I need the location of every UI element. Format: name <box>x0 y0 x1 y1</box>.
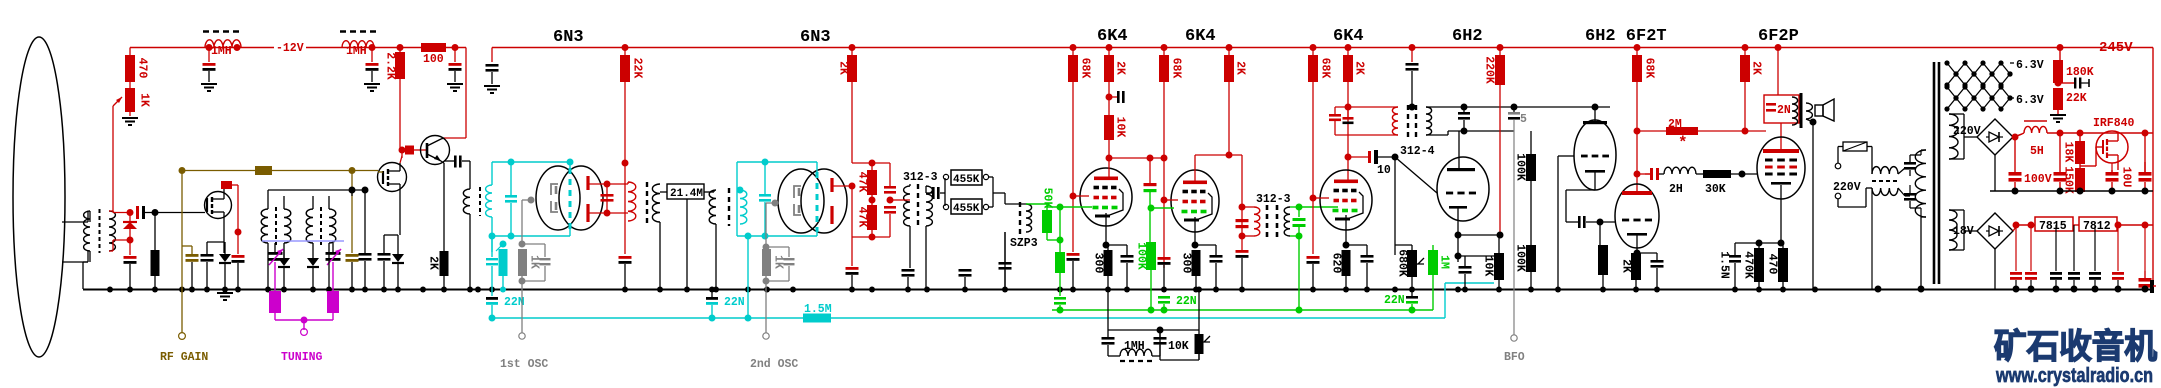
svg-text:2H: 2H <box>1669 183 1683 196</box>
transformer 312-3B core <box>1266 205 1269 239</box>
node rail 68K-2 <box>1161 44 1168 51</box>
tube V1 6N3 envelope <box>536 166 580 230</box>
wire screen V3 <box>1070 193 1077 200</box>
resistor grid leak 6F2T <box>1599 222 1601 245</box>
capacitor cyan small <box>491 236 493 257</box>
svg-text:18K: 18K <box>2062 142 2075 163</box>
capacitor B+ entry <box>491 48 493 63</box>
resistor cyan grid leak <box>500 241 507 248</box>
svg-text:矿石收音机: 矿石收音机 <box>1994 328 2157 366</box>
resistor 300 first <box>1104 250 1113 276</box>
resistor 68K first <box>1072 48 1074 56</box>
wire speaker return <box>1810 119 1817 126</box>
winding 18V <box>1949 210 1957 250</box>
capacitor filter 3 <box>454 48 456 63</box>
wire cathode to 2nd OSC <box>765 276 767 333</box>
transformer 312-4 secondary <box>1426 107 1432 135</box>
wire plate V8 to 2H <box>1634 171 1641 178</box>
diode osc <box>392 254 404 262</box>
capacitor 100V second <box>2059 133 2061 172</box>
svg-text:6K4: 6K4 <box>1333 27 1364 46</box>
svg-text:2K: 2K <box>1353 61 1366 75</box>
svg-text:6N3: 6N3 <box>553 28 584 47</box>
wire -12V rail <box>130 47 466 49</box>
svg-text:5: 5 <box>1520 113 1527 126</box>
capacitor coupling 2H red <box>1650 168 1653 180</box>
wire AGC cyan bus <box>492 317 803 319</box>
transformer 312-3 secondary <box>926 186 932 226</box>
capacitor 22N second <box>706 297 718 300</box>
svg-text:10K: 10K <box>1482 256 1495 277</box>
rectifier bridge 1 <box>1977 119 2013 155</box>
svg-text:2nd OSC: 2nd OSC <box>750 358 798 371</box>
resistor base red box <box>405 146 414 155</box>
transformer output secondary <box>1806 103 1812 119</box>
resistor 30K <box>1696 173 1703 175</box>
svg-text:68K: 68K <box>1170 58 1183 79</box>
wire cathode V8 <box>1636 235 1638 253</box>
node screen filter <box>1106 94 1113 101</box>
transformer SZP3 <box>1004 193 1006 204</box>
svg-text:22K: 22K <box>631 58 644 79</box>
resistor 47K lower <box>869 197 876 204</box>
wire source <box>223 218 225 253</box>
wire plate V3 <box>1108 158 1110 178</box>
tube V9 6F2P pentode <box>1757 137 1805 199</box>
wire B+ rail right drop <box>2152 48 2154 290</box>
tube V1 right plate red <box>586 176 589 190</box>
svg-text:2K: 2K <box>1620 259 1633 273</box>
capacitor 68K bypass 1 <box>1067 253 1080 256</box>
transformer 312-4 core <box>1407 105 1409 137</box>
wire cathode V5 <box>1345 215 1347 245</box>
wire plug ground <box>1844 198 1846 289</box>
capacitor screen <box>1109 96 1117 98</box>
resistor 300 second <box>1192 250 1201 276</box>
capacitor szp3 gnd <box>999 262 1012 265</box>
svg-text:300: 300 <box>1092 253 1105 274</box>
resistor 100K lower <box>1526 245 1536 272</box>
wire reg out <box>2117 224 2153 226</box>
svg-text:455K: 455K <box>953 203 980 215</box>
node choke out <box>2057 130 2064 137</box>
winding 220V <box>1949 114 1958 159</box>
svg-text:312-3: 312-3 <box>903 171 938 184</box>
wire tank right <box>889 163 891 186</box>
svg-text:22N: 22N <box>1384 294 1405 307</box>
node rail 2K-5 <box>1742 44 1749 51</box>
wire 15V rail <box>2016 224 2035 226</box>
svg-text:1K: 1K <box>772 255 785 269</box>
node coupling 10 <box>1345 154 1352 161</box>
tube V6 6H2 triode A <box>1437 157 1489 221</box>
wire ground bus <box>83 289 2152 291</box>
wire bridge1 bottom <box>1994 155 1996 191</box>
tube V4 6K4 <box>1171 170 1219 232</box>
resistor 100K green <box>1146 242 1156 270</box>
resistor 10K 6H2 <box>1494 253 1504 280</box>
wire IRF source <box>2117 163 2119 170</box>
capacitor 1.5N <box>1734 243 1736 255</box>
capacitor coupling 6F2T <box>1578 216 1581 228</box>
svg-text:100K: 100K <box>1514 153 1527 181</box>
wire coil grounds <box>267 243 269 289</box>
ground symbol 22K <box>2050 114 2066 116</box>
svg-text:30K: 30K <box>1705 183 1726 196</box>
wire osc gate drop <box>351 171 353 254</box>
transistor Q1 MOSFET <box>205 192 232 219</box>
svg-text:68K: 68K <box>1079 58 1092 79</box>
transformer osc1 secondary <box>486 185 492 217</box>
wire tank feed <box>1777 48 1779 96</box>
capacitor psu b <box>1904 193 1916 196</box>
speaker <box>1815 105 1823 116</box>
tube V1 left plate bracket <box>551 184 558 195</box>
svg-text:6H2 6F2T: 6H2 6F2T <box>1585 27 1667 46</box>
svg-text:312-4: 312-4 <box>1400 145 1435 158</box>
capacitor 22N first <box>486 297 498 300</box>
capacitor variable C-tune1 <box>274 243 276 252</box>
svg-text:10U: 10U <box>2120 167 2133 188</box>
cyan grid box V2 <box>737 161 817 163</box>
capacitor 10 <box>1348 156 1368 158</box>
resistor grid leak <box>154 213 156 251</box>
capacitor green szp <box>1296 204 1303 211</box>
resistor drain red box <box>221 181 232 189</box>
tank 2N box <box>1764 95 1799 123</box>
svg-text:7815: 7815 <box>2039 220 2067 233</box>
wire between regs <box>2073 224 2079 226</box>
wire gray cathode V2 <box>772 200 779 207</box>
svg-text:6H2: 6H2 <box>1452 27 1483 46</box>
svg-text:100: 100 <box>423 53 444 66</box>
terminal TUNING <box>301 329 308 336</box>
svg-text:2K: 2K <box>1234 61 1247 75</box>
capacitor 100V first <box>2014 137 2016 172</box>
svg-text:2K: 2K <box>427 256 440 270</box>
svg-text:470: 470 <box>1766 254 1779 275</box>
resistor 2.2K <box>399 48 401 53</box>
capacitor source bypass <box>201 254 214 257</box>
tube V7 6H2 triode B <box>1574 120 1616 190</box>
svg-text:2N: 2N <box>1777 104 1791 117</box>
filter 21.4M box <box>667 184 704 199</box>
svg-text:10: 10 <box>1377 164 1391 177</box>
wire emitter <box>441 161 444 163</box>
wire grid V7 <box>1558 155 1574 157</box>
node rail 220K <box>1497 44 1504 51</box>
tank coil <box>1792 97 1798 125</box>
node 2K rail tap <box>849 44 856 51</box>
svg-text:6.3V: 6.3V <box>2016 94 2044 107</box>
tuning gang section 2 <box>327 291 339 313</box>
svg-text:1.5M: 1.5M <box>804 303 832 316</box>
capacitor interstage A <box>1458 112 1470 115</box>
wire collector feed <box>465 48 467 139</box>
resistor 1K gray <box>518 249 527 276</box>
node rail 2K-2 <box>1226 44 1233 51</box>
svg-text:1K: 1K <box>138 93 151 107</box>
junction dots on ground bus <box>107 287 113 293</box>
capacitor tank upper <box>884 186 896 189</box>
wire grid V5 green feed <box>1299 206 1338 208</box>
svg-text:10K: 10K <box>1114 117 1127 138</box>
diode D1 <box>123 222 137 229</box>
tube V2 left plate bracket <box>794 186 801 198</box>
wire 47K tank top <box>852 162 890 164</box>
capacitor psu a <box>1904 162 1916 165</box>
wire grid V9 <box>1756 173 1758 175</box>
wire bridge2 bottom <box>1994 249 1996 289</box>
wire resonator out <box>988 176 993 178</box>
svg-text:www.crystalradio.cn: www.crystalradio.cn <box>1995 365 2153 387</box>
svg-text:TUNING: TUNING <box>281 351 323 364</box>
capacitor IF coupling <box>926 192 932 194</box>
capacitor tank <box>601 194 614 197</box>
wire grid V4 green <box>1148 205 1155 212</box>
svg-text:2M: 2M <box>1668 118 1682 131</box>
terminal BFO <box>1511 335 1517 341</box>
transformer heater <box>1872 167 1898 174</box>
resistor 220K <box>1499 48 1501 56</box>
transformer 312-3B primary <box>1242 206 1254 208</box>
svg-text:220V: 220V <box>1833 181 1861 194</box>
svg-text:RF GAIN: RF GAIN <box>160 351 208 364</box>
resistor 1.5M <box>803 314 831 323</box>
svg-text:220V: 220V <box>1953 125 1981 138</box>
svg-text:47K: 47K <box>856 207 869 228</box>
resistor 150K <box>2079 164 2081 168</box>
wire cyan AGC drop <box>747 236 749 318</box>
node choke2 right <box>369 44 376 51</box>
wire tank to IF coil <box>607 183 628 185</box>
diode source <box>219 254 231 262</box>
svg-text:6F2P: 6F2P <box>1758 27 1799 46</box>
svg-text:1MH: 1MH <box>211 45 232 58</box>
transformer T3 osc coil <box>306 209 313 243</box>
wire antenna to transformer <box>62 221 88 223</box>
resistor 470 <box>129 48 131 56</box>
node rail 68K-3 <box>1310 44 1317 51</box>
wire RF gain net <box>182 170 255 172</box>
wire source caps join <box>384 234 398 236</box>
wire secondary bottom <box>109 250 113 252</box>
wire bridge1 out <box>2013 134 2022 137</box>
capacitor 312-4 tank A <box>1329 114 1341 117</box>
capacitor cathode 6H2 <box>1459 266 1472 269</box>
transformer osc2 secondary cyan <box>740 190 747 224</box>
capacitor variable C-tune2 <box>332 243 334 252</box>
svg-text:SZP3: SZP3 <box>1010 237 1038 250</box>
potentiometer 680K <box>1407 250 1417 277</box>
transistor Q3 FET osc <box>378 163 407 192</box>
winding heater 6.3V A <box>1947 63 2010 74</box>
resistor 470K <box>1754 248 1764 282</box>
tube V2 grid cyan <box>816 172 819 232</box>
wire plate V4 <box>1194 155 1196 184</box>
capacitor cathode bypass 3 <box>1346 244 1367 246</box>
capacitor final black <box>2150 280 2154 293</box>
resistor 100K upper <box>1526 154 1536 181</box>
capacitor 312-3 tank <box>1236 219 1249 222</box>
node diode anode junction <box>127 237 134 244</box>
diode clamp 2 <box>307 258 319 266</box>
capacitor filter 1 <box>208 48 210 63</box>
transistor IRF840 <box>2096 131 2128 163</box>
transistor Q2 BJT <box>421 136 450 165</box>
capacitor cyan grid <box>505 195 517 198</box>
wire coil tops <box>267 190 269 209</box>
capacitor 2N <box>1766 103 1776 106</box>
svg-text:68K: 68K <box>1319 58 1332 79</box>
wire cathode V4 <box>1194 217 1196 245</box>
terminal 1st OSC <box>519 333 525 339</box>
wire secondary green <box>1290 206 1299 208</box>
fuse 220V <box>1843 142 1867 151</box>
svg-text:245V: 245V <box>2099 40 2133 56</box>
capacitor emitter <box>444 160 455 162</box>
capacitor 68K bypass 3 <box>1307 256 1320 259</box>
ground symbol <box>217 292 233 294</box>
node rail 68K-4 <box>1634 44 1641 51</box>
resistor 50K green <box>1042 210 1052 233</box>
dots transformer bottom <box>1918 286 1925 293</box>
label -12V <box>274 41 306 52</box>
capacitor green gnd <box>1054 297 1066 300</box>
capacitor plate bypass <box>619 256 632 259</box>
transformer 312-3 core <box>917 184 919 228</box>
svg-text:22K: 22K <box>2066 92 2087 105</box>
capacitor RF gain <box>186 254 199 257</box>
resonator 455K upper <box>944 178 946 193</box>
transformer 312-3B secondary <box>1284 207 1290 236</box>
rectifier bridge 2 <box>1977 213 2013 249</box>
svg-text:2K: 2K <box>1750 61 1763 75</box>
wire 312-4 secondary <box>1426 106 1610 108</box>
wire screen V5 <box>1310 195 1317 202</box>
node rail 2K-1 <box>1106 44 1113 51</box>
resistor 68K second <box>1163 48 1165 56</box>
inductor osc feedback <box>463 189 470 214</box>
regulator 7812 <box>2079 217 2117 231</box>
svg-text:180K: 180K <box>2066 66 2094 79</box>
resistor 2K fifth <box>1744 48 1746 56</box>
wire tuning gang <box>274 262 276 291</box>
wire cathode network <box>1735 242 1783 244</box>
svg-text:100K: 100K <box>1514 244 1527 272</box>
tube V1 grid cyan <box>569 168 572 229</box>
wire periwinkle link <box>262 240 344 242</box>
resistor 22K <box>624 48 626 56</box>
wire secondary top <box>109 210 113 212</box>
capacitor screen AGC <box>1147 155 1154 162</box>
node cathode junction <box>1455 253 1462 260</box>
wire primary to ground <box>83 261 88 263</box>
wire cathode V9 <box>1780 185 1782 243</box>
transformer main primary <box>1915 150 1926 217</box>
coupling capacitor C1 <box>136 206 139 219</box>
svg-text:470K: 470K <box>1742 251 1755 279</box>
capacitor 22N green 1 <box>1158 296 1170 299</box>
capacitor interstage B gray <box>1508 112 1520 115</box>
cyan grid box V1 <box>492 161 570 163</box>
wire heater caps <box>1898 168 1905 174</box>
capacitor reg bank <box>2015 225 2017 271</box>
node rail 245V <box>2057 44 2064 51</box>
svg-text:68K: 68K <box>1643 58 1656 79</box>
svg-text:IRF840: IRF840 <box>2093 117 2135 130</box>
node 22K rail tap <box>622 44 629 51</box>
resistor 18K <box>2077 130 2084 137</box>
wire drain <box>223 186 225 192</box>
svg-text:-12V: -12V <box>276 42 304 55</box>
wire plug wiring <box>1838 146 1843 148</box>
capacitor 68K bypass 2 <box>1158 257 1171 260</box>
capacitor bypass red <box>237 232 239 254</box>
node rail 2K-3 <box>1345 44 1352 51</box>
svg-text:22N: 22N <box>1176 295 1197 308</box>
tube V5 6K4 <box>1320 170 1372 230</box>
capacitor plate bypass 2 <box>846 267 859 270</box>
transformer T2 antenna coil <box>261 209 268 243</box>
svg-text:312-3: 312-3 <box>1256 193 1291 206</box>
transformer IF1 primary <box>628 182 636 221</box>
wire plate tank <box>588 183 607 185</box>
resistor 620 <box>1342 250 1351 276</box>
svg-text:BFO: BFO <box>1504 351 1525 364</box>
svg-text:455K: 455K <box>953 174 980 186</box>
wire RF gain pot wiper <box>113 212 130 214</box>
resistor 2K osc emitter <box>268 189 365 191</box>
svg-text:100K: 100K <box>1135 242 1148 270</box>
svg-text:1.5N: 1.5N <box>1718 251 1731 279</box>
node 2.2K tap <box>397 44 404 51</box>
resistor 10K screen <box>1104 115 1114 140</box>
tube V2 right plate red <box>830 178 833 192</box>
wire tank tap <box>890 199 902 201</box>
winding heater 6.3V B <box>1947 87 2010 98</box>
wire 220K to node <box>1458 234 1500 236</box>
wire secondary leads <box>660 191 667 193</box>
node rail cap <box>1409 44 1416 51</box>
tube V8 6F2T triode <box>1615 184 1659 248</box>
wire screen V4 <box>1161 197 1168 204</box>
wire gray cathode V1 <box>528 197 535 204</box>
wire grounds under filter <box>686 199 688 289</box>
tuning gang section 1 <box>269 291 281 313</box>
svg-text:47K: 47K <box>856 172 869 193</box>
tube V3 6K4 <box>1080 168 1132 226</box>
svg-text:6.3V: 6.3V <box>2016 59 2044 72</box>
svg-text:680K: 680K <box>1396 249 1409 277</box>
capacitor cathode V8 <box>1637 252 1657 254</box>
node secondary-top junction <box>127 209 134 216</box>
inductor 5H <box>2024 120 2047 122</box>
capacitor output right <box>2139 278 2152 282</box>
plug terminals <box>1835 163 1841 169</box>
resistor 100 <box>421 43 446 52</box>
capacitor osc gate <box>346 254 359 257</box>
wire green divider <box>1047 239 1060 241</box>
resistor 470 <box>1778 248 1788 282</box>
wire plate out <box>832 185 852 187</box>
resistor RF gain series <box>255 166 272 175</box>
svg-text:6K4: 6K4 <box>1097 27 1128 46</box>
node 2M junction <box>1634 128 1641 135</box>
svg-text:6N3: 6N3 <box>800 28 831 47</box>
capacitor 312-4 tank B <box>1343 117 1354 120</box>
transformer IF1 core <box>646 182 648 223</box>
